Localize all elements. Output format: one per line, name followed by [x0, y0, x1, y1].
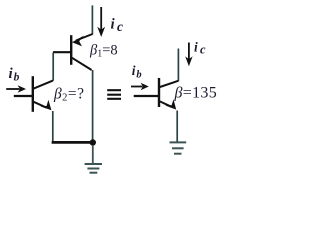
transistor Q3 [134, 78, 179, 110]
svg-text:c: c [117, 19, 123, 34]
current arrow ib (right) [131, 83, 149, 90]
ground (left) [85, 145, 102, 173]
equivalence symbol [107, 90, 121, 99]
svg-text:β2=?: β2=? [53, 86, 84, 104]
current arrow ib (left) [6, 85, 26, 93]
wire [177, 49, 179, 82]
svg-text:b: b [136, 69, 141, 80]
wire [52, 111, 54, 142]
svg-text:i: i [194, 40, 198, 55]
wire [91, 5, 93, 34]
svg-text:i: i [132, 63, 136, 78]
svg-text:c: c [200, 43, 206, 57]
svg-text:β=135: β=135 [174, 85, 218, 102]
transistor Q2 [14, 76, 53, 112]
transistor Q1 [53, 34, 93, 70]
ground (right) [170, 142, 187, 153]
junction dot [90, 139, 96, 145]
current arrow ic (left) [97, 7, 105, 37]
wire [92, 70, 94, 142]
wire [52, 53, 54, 81]
svg-text:β1=8: β1=8 [89, 43, 118, 60]
svg-text:b: b [14, 72, 20, 84]
current arrow ic (right) [185, 43, 192, 67]
wire [176, 111, 178, 142]
wire [52, 141, 93, 144]
svg-text:i: i [111, 17, 116, 33]
